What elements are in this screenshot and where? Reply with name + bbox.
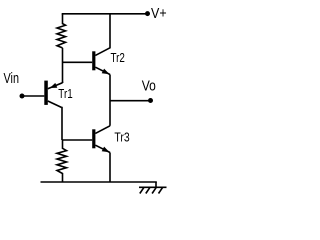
node V+ terminal dot [145,11,150,16]
svg-text:V+: V+ [151,6,167,22]
transistor Tr1 emitter arrow [50,83,58,88]
net label Vin [4,71,20,87]
transistor Tr2 (NPN) base bar [92,51,95,70]
node Vin terminal dot [20,94,25,99]
transistor Tr3 emitter arrow [102,147,110,153]
transistor Tr3 emitter lead [95,145,110,152]
svg-text:Vin: Vin [4,71,20,87]
wire Vin to Tr1 base [22,95,44,97]
transistor Tr3 (NPN) base bar [92,129,95,148]
transistor Tr2 collector lead to V+ rail [95,14,110,56]
transistor Tr1 (PNP) base bar [44,81,48,105]
wire R1 bottom to Tr1 emitter [62,48,64,83]
label Tr1 [58,87,72,101]
wire V+ top rail [62,13,148,15]
wire Tr3 emitter to ground rail [109,153,111,183]
net label V+ [151,6,167,22]
transistor Tr2 emitter lead [95,67,110,74]
wire Vo output [110,100,151,102]
transistor Tr1 collector lead [48,101,62,108]
svg-text:Tr2: Tr2 [111,51,125,65]
node Vo terminal dot [148,98,153,103]
resistor R2 (bottom left, bias) [57,140,67,182]
transistor Tr1 emitter lead [48,83,63,89]
wire ground rail [41,181,157,183]
wire Tr1 collector to node B [61,108,63,141]
net label Vo [142,79,156,95]
transistor Tr2 emitter arrow [102,69,110,75]
wire node A to Tr2 base [63,61,93,63]
svg-text:Tr1: Tr1 [58,87,72,101]
label Tr2 [111,51,125,65]
resistor R1 (top left, collector load) [57,14,66,48]
svg-text:Vo: Vo [142,79,156,95]
wire node B to Tr3 base [63,139,93,141]
transistor Tr3 collector lead [95,126,110,134]
svg-text:Tr3: Tr3 [114,130,129,144]
label Tr3 [114,130,129,144]
ground symbol [139,182,167,194]
wire Tr2 emitter to Tr3 collector (Vo node) [109,75,111,126]
